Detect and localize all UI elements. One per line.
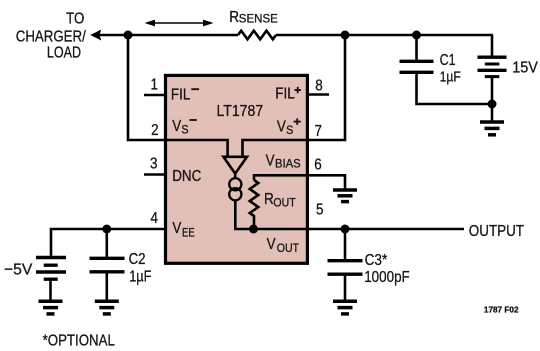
svg-text:2: 2 [151,122,158,139]
svg-text:OUT: OUT [273,197,295,210]
svg-text:C1: C1 [440,52,456,70]
wire ROUT top to VBIAS pin 6 [254,175,345,189]
double-headed arrow over sense path [152,22,206,24]
svg-text:V: V [266,152,275,169]
junction node output inside [249,225,258,234]
svg-text:C2: C2 [129,251,146,268]
svg-text:LOAD: LOAD [47,43,81,61]
junction node C2 tap [102,225,111,234]
svg-text:−5V: −5V [4,261,33,278]
svg-text:C3*: C3* [365,252,388,269]
svg-text:V: V [267,236,276,253]
svg-text:1: 1 [150,77,157,94]
capacitor C3 [344,229,347,259]
wire pin 7 to top rail [305,35,345,140]
arrow to charger/load [90,30,101,41]
ground at VBIAS [333,188,357,192]
junction node battery/C1 [488,100,497,109]
wire current source down to output node [235,200,253,229]
wire amp to current source [234,174,237,179]
svg-text:S: S [286,125,294,138]
svg-text:*OPTIONAL: *OPTIONAL [43,332,115,349]
svg-text:TO: TO [66,11,84,28]
junction node at charger tap [124,31,133,40]
svg-text:1787 F02: 1787 F02 [484,306,519,315]
wire internal VS- to amp input [167,140,228,158]
svg-text:15V: 15V [512,59,538,77]
resistor ROUT [250,180,259,229]
ground under C2 [95,300,119,304]
capacitor C2 [106,229,109,257]
svg-text:1µF: 1µF [129,268,151,286]
junction node C1 tap [412,31,421,40]
svg-text:8: 8 [315,77,322,94]
capacitor C1 [415,35,418,60]
battery -5V [36,256,66,260]
svg-text:6: 6 [314,157,321,174]
svg-text:FIL: FIL [275,86,294,103]
svg-text:DNC: DNC [172,168,201,185]
svg-text:1000pF: 1000pF [364,269,410,286]
op-amp error amplifier triangle [223,157,247,174]
IC U1 LT1787 body [166,75,308,263]
pin 8 stub FIL+ [306,93,329,96]
wire top rail left segment [98,34,238,37]
wire top rail right segment [276,34,493,37]
svg-text:SENSE: SENSE [239,13,278,25]
svg-text:V: V [172,220,181,237]
pin 1 stub FIL- [144,94,166,97]
junction node VS+ tap [341,31,350,40]
svg-text:4: 4 [150,210,157,227]
svg-text:7: 7 [314,123,321,140]
battery 15V [491,35,494,56]
svg-text:V: V [172,118,181,135]
junction node C3 tap [341,225,350,234]
svg-text:OUTPUT: OUTPUT [469,223,524,240]
wire from tap down to pin 2 [128,35,167,140]
wire output node to pin 5 and OUTPUT [254,228,465,231]
svg-text:3: 3 [150,156,157,173]
svg-text:FIL: FIL [171,86,190,103]
ground under C3 [333,300,357,304]
svg-text:EE: EE [182,226,195,239]
svg-text:OUT: OUT [277,242,299,255]
resistor RSENSE [238,31,276,40]
current source circles [229,178,241,190]
ground under 15V battery [480,120,504,124]
ground under -5V [39,300,63,304]
svg-text:LT1787: LT1787 [216,102,263,120]
svg-text:5: 5 [316,202,323,219]
wire internal VS+ to amp input [243,140,306,158]
svg-text:S: S [181,124,189,137]
svg-text:1µF: 1µF [440,69,461,85]
wire pin 4 VEE to supplies [51,229,166,256]
svg-text:V: V [277,119,286,136]
pin 3 stub DNC [144,173,166,176]
svg-text:BIAS: BIAS [275,157,301,170]
